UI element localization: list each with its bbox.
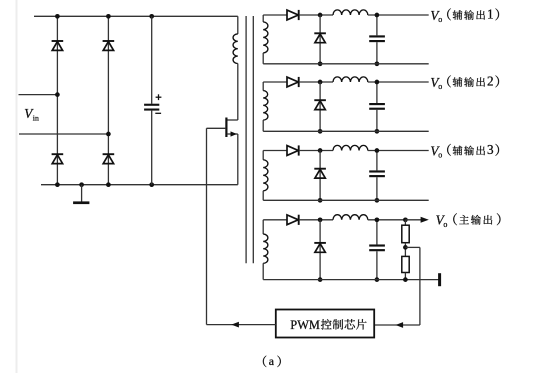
node output 1 freewheel top	[318, 13, 323, 18]
transformer secondary winding 2	[263, 82, 268, 131]
inductor L4 (output 4)	[333, 215, 368, 220]
wire feedback into PWM with arrow	[375, 322, 420, 328]
node top rail / branch1	[55, 14, 60, 19]
node output 2 freewheel top	[318, 80, 323, 85]
scan artifact faint line	[16, 0, 18, 373]
wire secondary 2 top (coil to diode)	[263, 81, 287, 83]
wire divider upper lead	[404, 220, 406, 225]
transformer core line 2	[252, 16, 254, 263]
wire output 4 top (inductor to divider)	[368, 219, 406, 221]
ground (output side)	[438, 273, 441, 286]
svg-text:1: 1	[487, 7, 494, 22]
svg-text:2: 2	[487, 74, 494, 89]
node output 4 divider bottom	[403, 277, 408, 282]
svg-text:a: a	[269, 354, 275, 368]
node output 2 cap top	[375, 80, 380, 85]
resistor R2 (divider lower)	[402, 256, 409, 272]
node output 1 cap top	[375, 13, 380, 18]
wire freewheel branch 1	[319, 15, 321, 64]
wire PWM output to gate with arrow	[207, 322, 276, 328]
transformer primary winding	[233, 34, 238, 64]
label PWM control chip	[290, 318, 366, 332]
diode D1 (branch1 upper)	[52, 41, 64, 50]
svg-text:o: o	[443, 220, 447, 229]
wire top rail	[34, 15, 238, 17]
wire output 1 top (inductor to output)	[368, 14, 429, 16]
wire primary top (rail to coil)	[237, 16, 239, 34]
label (aux output 2)	[447, 74, 499, 89]
wire bottom rail	[41, 184, 238, 186]
node top rail / branch2	[106, 14, 111, 19]
wire Vin upper	[19, 94, 58, 96]
transformer secondary winding 4	[263, 220, 268, 280]
transformer secondary winding 3	[263, 151, 268, 201]
wire output 2 top (diode to inductor)	[299, 81, 333, 83]
node output 4 freewheel bottom	[318, 277, 323, 282]
wire bridge branch 1	[56, 16, 58, 184]
inductor L3 (output 3)	[333, 145, 368, 150]
wire Vin lower	[19, 133, 108, 135]
diode D10 (freewheel, output 2)	[314, 100, 326, 109]
transistor Q1 channel bar	[225, 118, 227, 138]
inductor L2 (output 2)	[333, 77, 368, 82]
wire output 3 top (inductor to output)	[368, 150, 429, 152]
svg-text:3: 3	[487, 142, 494, 157]
wire divider middle	[404, 243, 406, 257]
inductor L1 (output 1)	[333, 10, 368, 15]
label (main output)	[453, 213, 500, 225]
wire divider lower lead	[404, 273, 406, 280]
node output 2 cap bottom	[375, 129, 380, 134]
wire output 3 top (diode to inductor)	[299, 150, 333, 152]
wire gate down to PWM	[206, 128, 208, 324]
label Vo main output	[436, 213, 448, 229]
node divider tap	[403, 245, 408, 250]
wire feedback tap right	[405, 246, 420, 248]
transformer core line 1	[245, 16, 247, 263]
label (aux output 1)	[447, 7, 499, 22]
node bottom rail / ground tap	[79, 182, 84, 187]
wire secondary 4 top (coil to diode)	[263, 219, 287, 221]
label (aux output 3)	[447, 142, 499, 157]
node output 4 cap bottom	[375, 277, 380, 282]
capacitor C1 (bulk, polarized)	[144, 16, 159, 184]
svg-text:PWM: PWM	[290, 318, 320, 332]
capacitor C3 (output 2)	[369, 82, 385, 131]
node output 3 freewheel top	[318, 148, 323, 153]
node output 3 cap top	[375, 148, 380, 153]
wire output 4 arrow to label	[405, 217, 428, 223]
node output 1 freewheel bottom	[318, 61, 323, 66]
wire output 2 top (inductor to output)	[368, 81, 429, 83]
wire freewheel branch 2	[319, 82, 321, 131]
diode D6 (series rectifier, output 2)	[287, 77, 299, 87]
node output 4 divider top	[403, 217, 408, 222]
label caption (a)	[263, 354, 281, 368]
node output 2 freewheel bottom	[318, 129, 323, 134]
label Vo output 3	[430, 143, 442, 159]
wire output 4 bottom	[263, 279, 439, 281]
svg-text:o: o	[438, 82, 442, 91]
wire freewheel branch 4	[319, 220, 321, 280]
wire source to bottom rail	[237, 134, 239, 185]
node output 1 cap bottom	[375, 61, 380, 66]
wire output 4 top (diode to inductor)	[299, 219, 333, 221]
capacitor C5 (output 4)	[369, 220, 385, 280]
wire output 3 bottom	[263, 199, 429, 201]
transistor Q1 gate lead	[207, 127, 226, 129]
label Vo output 2	[430, 75, 442, 91]
node top rail / capacitor	[149, 14, 154, 19]
node bottom rail / branch1	[55, 182, 60, 187]
wire secondary 1 top (coil to diode)	[263, 14, 287, 16]
node bottom rail / branch2	[106, 182, 111, 187]
capacitor C2 (output 1)	[369, 15, 385, 64]
wire output 2 bottom	[263, 130, 429, 132]
wire bridge branch 2	[107, 16, 109, 184]
wire primary bottom to drain	[227, 64, 238, 121]
node bottom rail / capacitor	[149, 182, 154, 187]
capacitor C4 (output 3)	[369, 151, 385, 201]
svg-text:o: o	[438, 15, 442, 24]
node output 4 cap top	[375, 217, 380, 222]
node Vin lower / branch2	[106, 132, 111, 137]
node output 4 freewheel top	[318, 217, 323, 222]
wire freewheel branch 3	[319, 151, 321, 201]
PWM controller U1 box	[276, 310, 374, 338]
label Vo output 1	[430, 8, 442, 24]
wire output 1 bottom	[263, 63, 429, 65]
ground (input side)	[73, 185, 89, 204]
svg-text:in: in	[33, 114, 39, 123]
transformer secondary winding 1	[263, 15, 268, 64]
wire feedback down	[419, 247, 421, 325]
wire secondary 3 top (coil to diode)	[263, 150, 287, 152]
diode D3 (branch2 upper)	[103, 41, 115, 50]
transistor Q1 source lead with arrow	[227, 131, 238, 136]
node output 3 freewheel bottom	[318, 198, 323, 203]
diode D5 (series rectifier, output 1)	[287, 10, 299, 20]
diode D4 (branch2 lower)	[103, 154, 115, 163]
diode D11 (freewheel, output 3)	[314, 169, 326, 178]
diode D8 (series rectifier, output 4)	[287, 215, 299, 225]
diode D9 (freewheel, output 1)	[314, 33, 326, 42]
svg-text:o: o	[438, 151, 442, 160]
diode D7 (series rectifier, output 3)	[287, 145, 299, 155]
label C1 plus sign	[156, 94, 162, 100]
diode D12 (freewheel, output 4)	[314, 243, 326, 252]
resistor R1 (divider upper)	[402, 225, 409, 243]
node Vin upper / branch1	[55, 92, 60, 97]
label C1 minus sign	[155, 112, 161, 114]
wire output 1 top (diode to inductor)	[299, 14, 333, 16]
label Vin	[24, 106, 39, 123]
node output 3 cap bottom	[375, 198, 380, 203]
diode D2 (branch1 lower)	[52, 154, 64, 163]
